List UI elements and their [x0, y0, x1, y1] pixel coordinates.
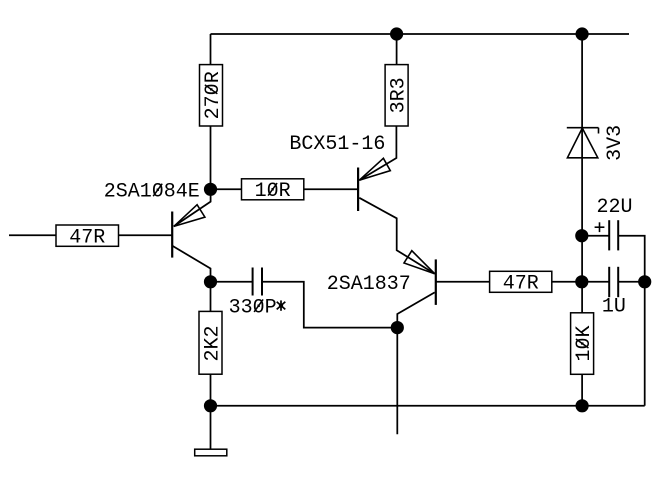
- resistor 10R: [242, 179, 304, 203]
- wire 270R branch vertical: [210, 34, 212, 189]
- capacitor 330P: [253, 268, 262, 296]
- svg-text:2SA1837: 2SA1837: [327, 273, 411, 296]
- transistor Q3 2SA1837: [404, 251, 436, 305]
- wire Q3 collector: [397, 292, 434, 327]
- wire ground stub: [210, 406, 212, 449]
- resistor 270R: [200, 65, 225, 126]
- node D junction: [576, 399, 589, 412]
- svg-text:10R: 10R: [255, 180, 291, 203]
- node top-right junction: [576, 27, 589, 40]
- node H junction: [575, 229, 588, 242]
- wire 3R3 branch vertical: [396, 34, 398, 126]
- wire Q1 emitter: [174, 189, 211, 226]
- capacitor 1U: [609, 267, 618, 297]
- wire 1U right plate to node I: [618, 281, 645, 283]
- node F junction: [390, 27, 403, 40]
- node C junction: [204, 399, 217, 412]
- svg-text:1U: 1U: [602, 296, 626, 319]
- plus sign of 22U: [595, 222, 605, 232]
- resistor 47R (input): [56, 225, 119, 249]
- wire Q1 collector: [173, 246, 211, 282]
- wire right rail vertical: [581, 34, 583, 406]
- wire Q2 collector to Q3 emitter: [359, 198, 434, 274]
- wire node H to 22U left plate: [582, 235, 609, 237]
- svg-text:47R: 47R: [503, 273, 539, 296]
- node B junction: [204, 275, 217, 288]
- wire 47R to node G: [552, 281, 582, 283]
- wire Q2 emitter from 3R3: [359, 126, 396, 180]
- svg-text:47R: 47R: [69, 226, 105, 249]
- wire 330P right plate to node E: [262, 282, 397, 328]
- svg-text:10K: 10K: [573, 325, 596, 361]
- wire input to Q1 base: [9, 234, 172, 236]
- asterisk of 330P label: [277, 300, 286, 310]
- resistor 3R3: [385, 65, 410, 126]
- wire node A to Q2 base through 10R: [211, 188, 359, 190]
- wire node B to 330P left plate: [211, 281, 253, 283]
- svg-text:BCX51-16: BCX51-16: [289, 133, 385, 156]
- node A junction: [204, 183, 217, 196]
- diode D1 zener 3V3: [567, 128, 599, 158]
- svg-text:270R: 270R: [202, 71, 225, 119]
- resistor 2K2: [199, 311, 224, 374]
- svg-text:3V3: 3V3: [604, 125, 627, 161]
- wire Q3 base to 47R: [436, 281, 490, 283]
- node I junction: [638, 275, 651, 288]
- svg-text:330P: 330P: [229, 296, 277, 319]
- svg-text:2K2: 2K2: [201, 325, 224, 361]
- wire bottom bus: [211, 405, 645, 407]
- transistor Q2 BCX51-16: [358, 158, 390, 211]
- wire 2K2 branch vertical: [210, 282, 212, 406]
- resistor 10K: [571, 313, 596, 375]
- svg-text:22U: 22U: [597, 196, 633, 219]
- svg-text:2SA1084E: 2SA1084E: [104, 181, 200, 204]
- node E junction: [391, 321, 404, 334]
- node G junction: [575, 275, 588, 288]
- wire 22U right plate to right branch: [618, 236, 645, 406]
- capacitor 22U: [609, 220, 618, 250]
- wire node G to 1U left plate: [582, 281, 609, 283]
- resistor 47R (output): [490, 271, 552, 295]
- wire output stub crossing bus: [396, 328, 398, 435]
- wire top bus: [211, 33, 630, 35]
- ground: [195, 449, 227, 456]
- svg-text:3R3: 3R3: [387, 77, 410, 113]
- transistor Q1 2SA1084E: [172, 205, 205, 258]
